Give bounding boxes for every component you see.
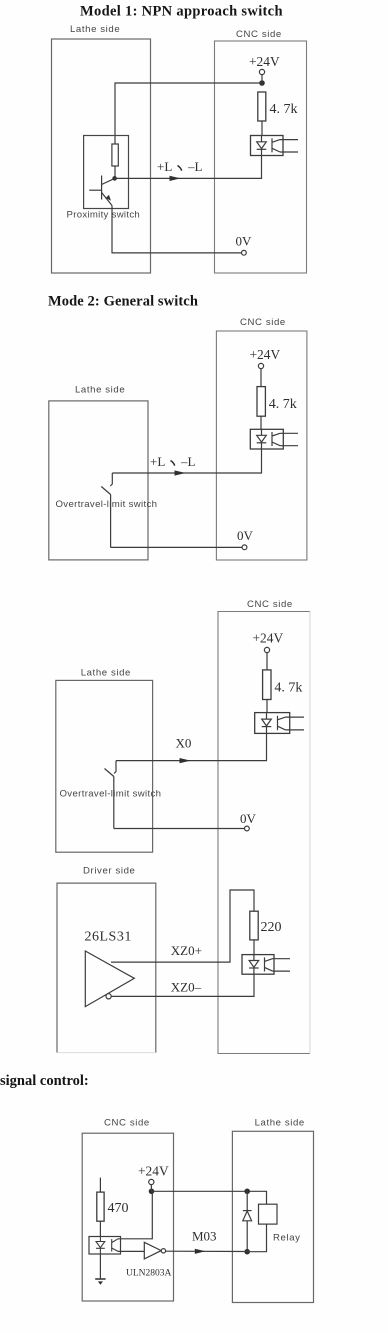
overtravel limit switch label (c3) <box>60 789 162 800</box>
overtravel limit switch label (c2) <box>56 499 158 510</box>
0V wire (c3) <box>114 828 245 830</box>
resistor 4.7k (c2) <box>257 387 265 430</box>
buffer inverting bubble <box>106 994 111 999</box>
opto output stubs (c2) <box>280 433 298 445</box>
svg-text:470: 470 <box>108 1201 129 1216</box>
optocoupler LED (c2) <box>257 429 267 449</box>
junction dot (diode top) <box>244 1189 250 1195</box>
svg-text:Driver side: Driver side <box>83 866 135 877</box>
relay coil box <box>259 1204 278 1224</box>
opto output stubs (c3b) <box>273 959 291 971</box>
optocoupler box (c3b) <box>242 955 274 975</box>
CNC side box (c4) <box>82 1133 173 1301</box>
node collector junction <box>112 176 117 181</box>
CNC side label (c4) <box>104 1118 150 1129</box>
overtravel limit switch (c2) <box>101 473 112 548</box>
proximity switch label <box>67 210 141 221</box>
0V wire (c2) <box>111 546 243 548</box>
lathe side box (c2) <box>49 401 148 560</box>
optocoupler LED <box>257 136 267 156</box>
lathe side box (c3) <box>56 680 153 852</box>
svg-text:Mode 2: General switch: Mode 2: General switch <box>48 294 198 310</box>
svg-text:X0: X0 <box>176 736 192 751</box>
svg-text:XZ0–: XZ0– <box>171 980 202 995</box>
opto output stubs <box>280 140 298 152</box>
svg-text:+L: +L <box>157 159 172 174</box>
svg-text:Lathe side: Lathe side <box>81 668 131 679</box>
label 470 <box>108 1201 129 1216</box>
flyback diode <box>243 1191 252 1251</box>
wire +24V down to opto collector <box>118 1191 152 1239</box>
resistor 4.7k <box>258 92 266 136</box>
+24V label (c3) <box>253 631 284 646</box>
label +L、-L <box>157 159 203 174</box>
heading signal control <box>0 1073 89 1089</box>
opto emitter stub to buffer <box>118 1250 144 1252</box>
Relay label <box>273 1233 301 1244</box>
svg-text:–L: –L <box>180 454 196 469</box>
0V wire <box>112 252 242 254</box>
svg-text:26LS31: 26LS31 <box>85 930 132 945</box>
svg-text:Model 1: NPN approach switch: Model 1: NPN approach switch <box>80 4 283 20</box>
M03 label <box>192 1229 217 1244</box>
+24V wire to relay <box>151 1185 266 1205</box>
svg-text:Lathe side: Lathe side <box>75 385 125 396</box>
label XZ0+ <box>171 943 202 958</box>
0V terminal (c3) <box>245 826 250 831</box>
+24V terminal (c2) <box>258 363 263 368</box>
svg-text:+L: +L <box>150 454 165 469</box>
resistor 470 <box>97 1178 104 1237</box>
optocoupler phototransistor (c4) <box>112 1239 118 1252</box>
optocoupler box (c4) <box>89 1237 121 1255</box>
wire +24V to resistor (c3) <box>266 653 268 670</box>
svg-text:4. 7k: 4. 7k <box>270 102 298 117</box>
svg-text:CNC side: CNC side <box>247 599 293 610</box>
junction dot <box>259 80 265 86</box>
svg-text:0V: 0V <box>237 528 254 543</box>
optocoupler LED (c4) <box>96 1237 105 1255</box>
0V terminal (c2) <box>242 545 247 550</box>
optocoupler phototransistor (c2) <box>272 432 280 446</box>
wire relay bottom to M03 node <box>247 1224 266 1252</box>
signal wire X0 with arrow (c3) <box>116 733 267 763</box>
optocoupler box (c3) <box>255 713 290 734</box>
0V terminal <box>242 250 247 255</box>
svg-text:Lathe side: Lathe side <box>70 24 120 35</box>
svg-text:ULN2803A: ULN2803A <box>126 1269 172 1279</box>
label +L、-L (c2) <box>150 454 196 469</box>
lathe side box <box>52 39 151 273</box>
lathe side box (c4) <box>232 1131 313 1302</box>
svg-text:–L: –L <box>187 159 203 174</box>
wire XZO+ <box>111 890 254 962</box>
optocoupler box (c2) <box>250 429 283 449</box>
svg-text:0V: 0V <box>240 811 257 826</box>
M03 wire with arrow <box>166 1249 248 1254</box>
CNC side label (c3) <box>247 599 293 610</box>
0V label (c3) <box>240 811 257 826</box>
svg-text:Relay: Relay <box>273 1233 301 1244</box>
svg-text:XZ0+: XZ0+ <box>171 943 202 958</box>
proximity switch box <box>84 136 129 209</box>
label 26LS31 <box>85 930 132 945</box>
label X0 <box>176 736 192 751</box>
resistor (inside proximity switch) <box>112 144 118 177</box>
svg-text:+24V: +24V <box>250 347 281 362</box>
svg-text:CNC side: CNC side <box>236 29 282 40</box>
optocoupler LED (c3b) <box>249 955 259 975</box>
optocoupler phototransistor (c3b) <box>265 957 273 971</box>
signal wire +L -L with arrow (c2) <box>112 449 261 476</box>
wire +24V rail to pull-up <box>115 75 262 144</box>
label 4.7k <box>270 102 298 117</box>
0V label <box>236 234 253 249</box>
junction dot (diode bottom) <box>244 1249 250 1255</box>
resistor 220 <box>250 911 258 954</box>
CNC side box (c3, right edge faint) <box>218 612 310 1054</box>
optocoupler phototransistor <box>272 138 280 152</box>
wire emitter to 0V <box>111 206 113 254</box>
CNC side label <box>236 29 282 40</box>
Lathe side label (c2) <box>75 385 125 396</box>
svg-text:4. 7k: 4. 7k <box>269 397 297 412</box>
svg-text:+24V: +24V <box>138 1164 169 1179</box>
buffer 26LS31 triangle <box>85 951 134 1007</box>
+24V terminal (c3) <box>264 647 269 652</box>
overtravel limit switch (c3) <box>105 761 117 829</box>
svg-text:Overtravel-limit switch: Overtravel-limit switch <box>56 499 158 510</box>
svg-text:signal control:: signal control: <box>0 1073 89 1089</box>
svg-text:Overtravel-limit switch: Overtravel-limit switch <box>60 789 162 800</box>
junction dot (c4 left) <box>149 1189 155 1195</box>
Driver side label <box>83 866 135 877</box>
label 220 <box>261 920 282 935</box>
resistor 4.7k (c3) <box>263 670 271 713</box>
wire +24V to resistor (c2) <box>260 369 262 387</box>
svg-text:CNC side: CNC side <box>104 1118 150 1129</box>
driver side box (bottom edge faint) <box>57 883 156 1053</box>
label 4.7k (c3) <box>274 681 302 696</box>
heading Model 1 <box>80 4 283 20</box>
buffer ULN2803A triangle <box>144 1242 161 1259</box>
+24V label <box>249 54 280 69</box>
svg-text:4. 7k: 4. 7k <box>274 681 302 696</box>
svg-text:M03: M03 <box>192 1229 217 1244</box>
+24V terminal (c4) <box>149 1179 154 1184</box>
CNC side box (c2) <box>216 331 307 560</box>
optocoupler phototransistor (c3) <box>278 716 286 730</box>
buffer inverting bubble (c4) <box>161 1249 165 1253</box>
CNC side label (c2) <box>240 317 286 328</box>
label XZ0- <box>171 980 202 995</box>
0V label (c2) <box>237 528 254 543</box>
wire XZO- <box>111 974 254 996</box>
opto output stubs (c3) <box>286 717 305 730</box>
optocoupler LED (c3) <box>262 713 272 734</box>
svg-text:0V: 0V <box>236 234 253 249</box>
wire LED to ground <box>99 1254 101 1279</box>
svg-text:Proximity switch: Proximity switch <box>67 210 141 221</box>
svg-text:+24V: +24V <box>253 631 284 646</box>
lathe side label <box>70 24 120 35</box>
transistor Q (NPN) <box>89 176 114 206</box>
label 4.7k (c2) <box>269 397 297 412</box>
Lathe side label (c4) <box>255 1118 305 1129</box>
svg-text:220: 220 <box>261 920 282 935</box>
Lathe side label (c3) <box>81 668 131 679</box>
+24V label (c2) <box>250 347 281 362</box>
svg-text:+24V: +24V <box>249 54 280 69</box>
svg-text:CNC side: CNC side <box>240 317 286 328</box>
svg-text:Lathe side: Lathe side <box>255 1118 305 1129</box>
signal wire +L -L with arrow <box>115 156 262 182</box>
+24V terminal <box>259 69 264 74</box>
heading Mode 2 <box>48 294 198 310</box>
ULN2803A label <box>126 1269 172 1279</box>
optocoupler U1 box <box>251 136 284 156</box>
+24V label (c4) <box>138 1164 169 1179</box>
ground symbol <box>95 1279 105 1285</box>
CNC side box <box>215 41 307 273</box>
